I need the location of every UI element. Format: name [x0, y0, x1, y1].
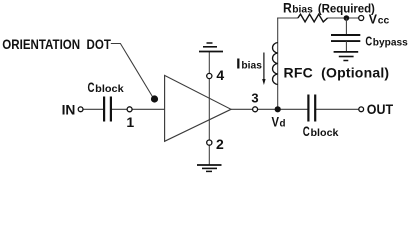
svg-text:bias: bias — [241, 59, 262, 71]
svg-text:(Required): (Required) — [318, 4, 375, 16]
svg-text:RFC (Optional): RFC (Optional) — [284, 64, 390, 80]
node 1 — [127, 107, 132, 112]
svg-text:1: 1 — [126, 114, 134, 130]
capacitor Cbypass — [331, 34, 360, 36]
capacitor Cblock (output) — [307, 95, 309, 122]
svg-text:OUT: OUT — [367, 101, 394, 117]
wire RFC branch vertical — [277, 18, 279, 109]
svg-text:C: C — [88, 79, 95, 95]
svg-text:block: block — [311, 128, 339, 139]
ground (bottom, pin 2) — [197, 165, 222, 171]
svg-text:C: C — [365, 34, 372, 49]
terminal Vcc — [359, 16, 364, 21]
pin 2 node — [207, 140, 212, 145]
wire pin line vertical through amplifier — [208, 52, 210, 166]
leader line to orientation dot — [111, 44, 153, 98]
svg-text:3: 3 — [251, 91, 258, 106]
ground (Cbypass) — [334, 52, 359, 61]
wire top Vcc rail — [277, 17, 298, 19]
wire Cbypass to ground — [345, 41, 347, 52]
inductor RFC coil — [273, 43, 278, 85]
svg-text:2: 2 — [216, 136, 224, 152]
svg-text:V: V — [272, 114, 280, 130]
op-amp U1 amplifier triangle — [165, 75, 231, 141]
wire Vcc junction down to Cbypass — [345, 18, 347, 35]
svg-text:bias: bias — [292, 5, 313, 16]
capacitor Cblock (input) — [103, 97, 105, 122]
wire amplifier output to Vd and Cblock — [231, 108, 308, 110]
ground (top, inverted, pin 4) — [199, 43, 223, 52]
svg-text:I: I — [236, 55, 240, 72]
svg-text:4: 4 — [216, 67, 224, 83]
svg-text:block: block — [95, 84, 124, 95]
pin 4 node — [207, 73, 212, 78]
svg-text:cc: cc — [378, 16, 390, 27]
Ibias arrow — [263, 53, 265, 81]
node 3 — [253, 107, 258, 112]
svg-text:C: C — [303, 123, 310, 139]
orientation dot — [151, 95, 158, 102]
wire input IN to amplifier — [83, 108, 103, 110]
svg-text:IN: IN — [62, 102, 76, 118]
svg-text:d: d — [280, 119, 286, 130]
resistor Rbias — [298, 14, 328, 22]
svg-text:V: V — [369, 12, 378, 27]
junction Vd — [275, 106, 281, 112]
terminal IN — [78, 107, 83, 112]
svg-text:bypass: bypass — [373, 38, 408, 49]
junction at Vcc — [344, 15, 350, 21]
svg-text:ORIENTATION DOT: ORIENTATION DOT — [2, 36, 111, 52]
terminal OUT — [359, 107, 364, 112]
svg-text:R: R — [283, 0, 292, 16]
